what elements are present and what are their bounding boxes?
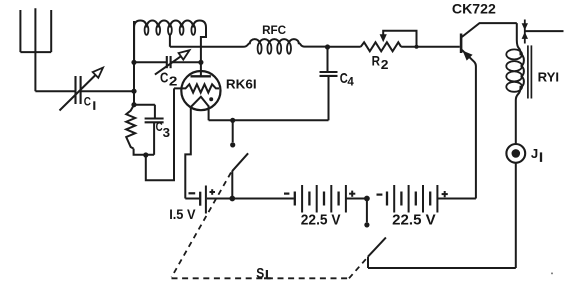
svg-text:I.5 V: I.5 V	[169, 206, 196, 222]
svg-text:S: S	[256, 265, 264, 282]
svg-text:CK722: CK722	[452, 1, 496, 16]
svg-text:3: 3	[163, 125, 170, 140]
svg-text:RK6I: RK6I	[226, 76, 257, 91]
svg-text:RFC: RFC	[262, 23, 286, 37]
svg-text:C: C	[84, 95, 91, 109]
svg-text:J: J	[531, 146, 538, 161]
svg-text:RYI: RYI	[538, 70, 560, 85]
svg-text:C: C	[160, 71, 168, 87]
svg-text:R: R	[372, 53, 380, 69]
svg-text:2: 2	[381, 58, 389, 72]
svg-text:22.5 V: 22.5 V	[301, 212, 341, 229]
svg-text:4: 4	[347, 75, 354, 89]
svg-text:22.5 V: 22.5 V	[392, 212, 436, 229]
svg-text:C: C	[156, 120, 163, 134]
svg-text:2: 2	[169, 73, 178, 88]
